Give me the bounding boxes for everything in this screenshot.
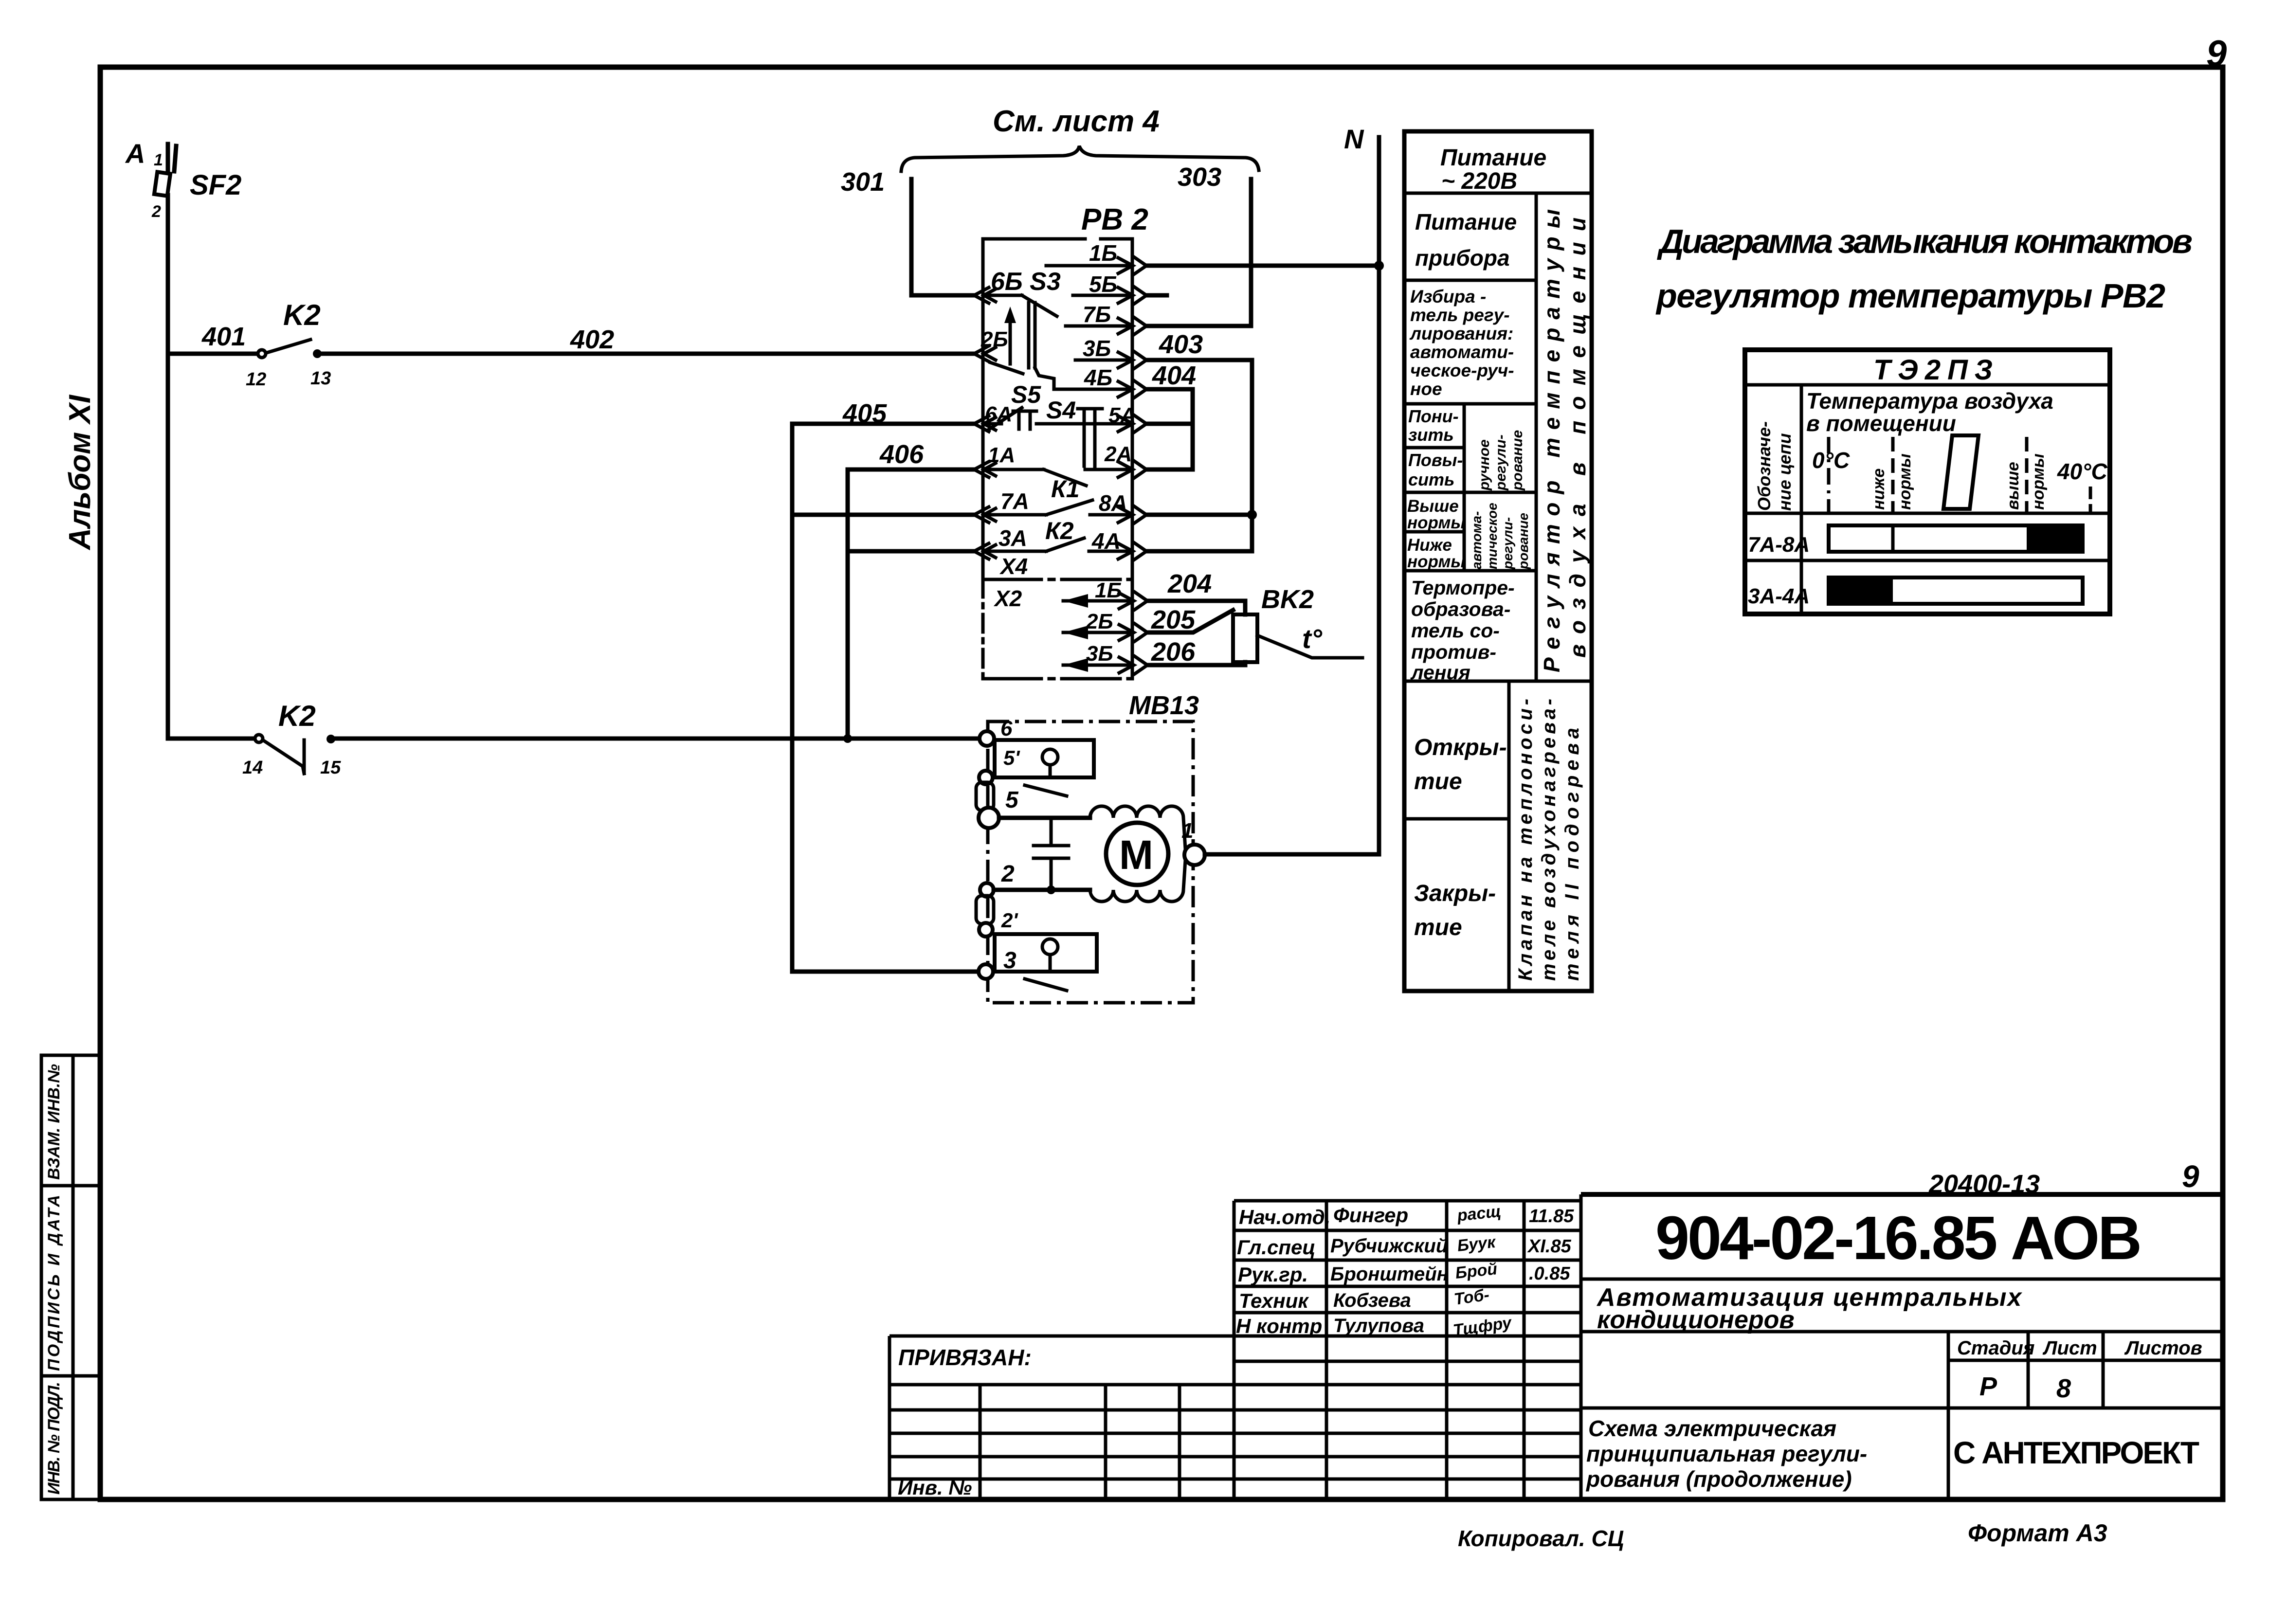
contact S3 second pole diagonal <box>990 362 1023 374</box>
svg-text:Температура воздуха: Температура воздуха <box>1806 388 2053 414</box>
main title block frame <box>1581 1194 2222 1499</box>
row 1Б <box>1046 240 1129 266</box>
svg-text:X4: X4 <box>999 554 1028 579</box>
terminal 2 <box>980 883 994 897</box>
svg-text:тие: тие <box>1414 769 1462 794</box>
jumper 5'-5 <box>976 782 994 811</box>
svg-text:2Б: 2Б <box>1086 610 1113 633</box>
wire 405 vertical chain (x1628): 405 row to 7A row to terminal 3 wire <box>790 424 795 972</box>
svg-text:выше: выше <box>2004 462 2022 510</box>
svg-text:Нач.отд.: Нач.отд. <box>1239 1206 1330 1228</box>
svg-text:Схема электрическая: Схема электрическая <box>1588 1416 1836 1441</box>
svg-text:1А: 1А <box>988 443 1015 467</box>
terminal 5' <box>979 771 993 784</box>
bracket См. лист 4 <box>901 105 1259 171</box>
wire 406 vertical chain (x1742): 406 row to 3A row to terminal 6 wire <box>846 469 850 739</box>
wire 5А row to 404 vertical <box>1146 422 1193 426</box>
limit switch box (3) <box>995 934 1097 972</box>
right output arrows <box>1118 257 1147 674</box>
contact K1 row 7А/8А <box>983 475 1129 516</box>
wire 405 <box>792 422 973 426</box>
svg-text:автома-: автома- <box>1469 511 1484 569</box>
cell Термопреобразователь сопротивления <box>1404 680 1592 683</box>
wire 406 <box>848 468 973 472</box>
svg-text:Формат А3: Формат А3 <box>1968 1519 2107 1547</box>
svg-text:14: 14 <box>242 758 263 778</box>
svg-text:A: A <box>125 138 145 169</box>
svg-text:7А-8А: 7А-8А <box>1748 533 1810 557</box>
svg-text:8А: 8А <box>1099 490 1127 516</box>
svg-text:ления: ления <box>1410 661 1470 684</box>
svg-text:Повы-: Повы- <box>1408 450 1463 470</box>
wire 7Б to 303 <box>1146 324 1251 328</box>
contact S3 <box>983 268 1061 368</box>
svg-text:0°С: 0°С <box>1812 448 1850 473</box>
svg-text:образова-: образова- <box>1411 598 1510 620</box>
setpoint parallelogram <box>1943 435 1978 509</box>
breaker SF2 <box>151 144 241 221</box>
svg-text:Инв. №: Инв. № <box>898 1476 972 1499</box>
svg-text:K2: K2 <box>283 299 321 331</box>
svg-text:7А: 7А <box>1000 488 1029 514</box>
contact K2 (14-15) <box>242 700 341 778</box>
svg-text:2: 2 <box>151 202 161 221</box>
svg-text:тие: тие <box>1414 915 1462 940</box>
svg-text:.0.85: .0.85 <box>1529 1263 1570 1284</box>
svg-text:3А: 3А <box>998 525 1027 551</box>
row divider <box>1745 512 2110 515</box>
staff signature table <box>1234 1201 1581 1499</box>
wire 402 <box>317 352 973 356</box>
svg-text:ПОДПИСЬ И ДАТА: ПОДПИСЬ И ДАТА <box>45 1195 63 1371</box>
contact S5 <box>983 381 1041 430</box>
svg-text:ние цепи: ние цепи <box>1775 433 1795 511</box>
MB13 dash-dot box <box>988 722 1193 1003</box>
svg-text:6: 6 <box>1000 717 1013 740</box>
terminal 5 <box>979 808 999 828</box>
svg-text:8: 8 <box>2056 1374 2071 1403</box>
svg-text:7Б: 7Б <box>1083 302 1111 327</box>
svg-text:3Б: 3Б <box>1086 642 1113 666</box>
rotated column divider <box>1535 193 1538 681</box>
svg-text:406: 406 <box>879 440 924 469</box>
X4 divider dash-dot <box>983 578 1132 581</box>
svg-text:С АНТЕХПРОЕКТ: С АНТЕХПРОЕКТ <box>1953 1435 2199 1470</box>
svg-text:сить: сить <box>1408 469 1454 489</box>
svg-text:рование: рование <box>1516 513 1531 570</box>
svg-text:5': 5' <box>1003 746 1020 769</box>
cell Открытие <box>1507 681 1511 991</box>
X2 row 2Б <box>1063 610 1129 639</box>
svg-text:против-: против- <box>1411 641 1496 663</box>
svg-text:Закры-: Закры- <box>1414 881 1496 906</box>
svg-text:XI.85: XI.85 <box>1527 1236 1572 1257</box>
wire 4А row <box>1146 515 1252 551</box>
left attribute column cells <box>41 1055 100 1499</box>
svg-text:2Б: 2Б <box>980 327 1008 351</box>
PB2 box right edge <box>1131 239 1134 679</box>
svg-text:в помещении: в помещении <box>1806 411 1956 436</box>
wire to contact K2 (14-15) <box>168 737 255 741</box>
svg-text:тель со-: тель со- <box>1411 619 1500 642</box>
svg-text:1Б: 1Б <box>1095 578 1122 602</box>
thermal sensor BK2 <box>1233 585 1362 662</box>
svg-text:12: 12 <box>246 369 266 390</box>
svg-text:303: 303 <box>1178 162 1221 192</box>
svg-text:~ 220В: ~ 220В <box>1441 168 1517 194</box>
svg-text:Кобзева: Кобзева <box>1333 1290 1411 1311</box>
svg-text:3: 3 <box>1003 948 1016 974</box>
wire 7A row <box>792 513 973 517</box>
svg-text:тель регу-: тель регу- <box>1410 305 1510 325</box>
svg-text:X2: X2 <box>993 586 1022 611</box>
wire 3A row <box>848 549 973 554</box>
svg-text:рование: рование <box>1509 430 1525 491</box>
svg-text:Рук.гр.: Рук.гр. <box>1238 1263 1308 1286</box>
cell Повысить <box>1404 491 1536 494</box>
row 1А/2А <box>983 442 1132 486</box>
svg-text:прибора: прибора <box>1415 245 1510 271</box>
wire to motor terminal 3 <box>792 970 979 974</box>
header cell Питание ~220В <box>1404 192 1592 195</box>
svg-text:Стадия: Стадия <box>1957 1337 2034 1359</box>
wire terminal 5 to windings <box>999 816 1090 820</box>
wire terminal 2 to winding <box>994 888 1090 892</box>
svg-text:2А: 2А <box>1104 442 1132 466</box>
svg-text:Питание: Питание <box>1415 209 1517 235</box>
svg-text:2: 2 <box>1001 861 1015 887</box>
svg-text:К2: К2 <box>1045 517 1074 544</box>
svg-text:Техник: Техник <box>1239 1289 1309 1312</box>
svg-text:9: 9 <box>2182 1159 2199 1194</box>
wire 8А row <box>1146 513 1252 517</box>
svg-text:автомати-: автомати- <box>1410 342 1514 362</box>
svg-text:регули-: регули- <box>1493 434 1509 491</box>
svg-text:2': 2' <box>1001 909 1018 932</box>
wire N vertical <box>1377 137 1381 854</box>
svg-text:S4: S4 <box>1046 397 1076 424</box>
svg-text:SF2: SF2 <box>190 169 241 201</box>
svg-text:K2: K2 <box>278 700 316 732</box>
contact K2 (12-13) <box>246 299 331 390</box>
jumper 2-2' <box>976 896 994 924</box>
PB2 box top edge <box>983 237 1085 241</box>
svg-text:регули-: регули- <box>1500 517 1515 570</box>
wire from K2-15 to motor terminal 6 <box>331 737 982 741</box>
lower-left attachment table ПРИВЯЗАН <box>889 1336 1234 1499</box>
svg-text:ное: ное <box>1410 379 1442 399</box>
svg-text:Термопре-: Термопре- <box>1411 577 1515 599</box>
contact S4 <box>1036 397 1136 466</box>
svg-text:ческое-руч-: ческое-руч- <box>1410 361 1514 380</box>
cell Понизить <box>1463 404 1466 571</box>
row 7Б <box>1066 302 1129 327</box>
svg-text:Откры-: Откры- <box>1414 735 1507 760</box>
svg-text:Фингер: Фингер <box>1333 1204 1408 1227</box>
cell Питание прибора <box>1404 279 1536 282</box>
X2 bottom dash-dot <box>983 677 1132 681</box>
svg-text:1Б: 1Б <box>1089 240 1117 266</box>
svg-text:ручное: ручное <box>1476 439 1492 491</box>
X2 row 1Б <box>1063 578 1129 608</box>
wire 1Б to N <box>1146 264 1379 268</box>
svg-text:Копировал. СЦ: Копировал. СЦ <box>1458 1526 1624 1551</box>
svg-text:К1: К1 <box>1051 475 1080 503</box>
svg-text:M: M <box>1119 832 1153 878</box>
svg-text:Диаграмма замыкания контактов: Диаграмма замыкания контактов <box>1657 222 2193 260</box>
svg-text:Н контр: Н контр <box>1236 1315 1322 1337</box>
terminal 3 <box>979 964 993 979</box>
svg-text:нормы: нормы <box>2029 453 2048 510</box>
svg-text:206: 206 <box>1151 637 1196 667</box>
limit switch box (5') <box>995 740 1094 777</box>
svg-text:Пони-: Пони- <box>1408 406 1459 426</box>
X2 row 3Б <box>1063 642 1129 672</box>
svg-text:Альбом XI: Альбом XI <box>63 394 97 551</box>
svg-text:904-02-16.85 АОВ: 904-02-16.85 АОВ <box>1655 1204 2142 1272</box>
svg-text:1: 1 <box>154 151 163 169</box>
header ТЭ2П3 <box>1745 383 2110 387</box>
svg-text:N: N <box>1344 124 1364 154</box>
svg-text:Обозначе-: Обозначе- <box>1754 421 1774 511</box>
svg-text:3Б: 3Б <box>1083 336 1111 361</box>
svg-text:ИНВ. № ПОДЛ.: ИНВ. № ПОДЛ. <box>45 1382 63 1495</box>
capacitor <box>1034 818 1069 890</box>
svg-text:15: 15 <box>320 758 341 778</box>
wire 2А row <box>1146 468 1193 472</box>
row divider <box>1745 559 2110 562</box>
svg-text:405: 405 <box>842 399 887 428</box>
svg-text:403: 403 <box>1159 330 1203 359</box>
svg-text:принципиальная регули-: принципиальная регули- <box>1586 1441 1867 1466</box>
svg-text:4Б: 4Б <box>1084 365 1112 390</box>
svg-text:3А-4А: 3А-4А <box>1748 584 1810 608</box>
svg-text:20400-13: 20400-13 <box>1928 1170 2040 1199</box>
svg-text:6Б S3: 6Б S3 <box>991 268 1061 296</box>
svg-text:205: 205 <box>1151 605 1196 634</box>
svg-text:ВЗАМ. ИНВ.№: ВЗАМ. ИНВ.№ <box>45 1064 63 1180</box>
svg-text:Листов: Листов <box>2124 1337 2202 1359</box>
svg-text:13: 13 <box>310 368 331 389</box>
svg-text:PB 2: PB 2 <box>1081 203 1148 236</box>
svg-text:1: 1 <box>1181 819 1193 843</box>
svg-text:301: 301 <box>841 167 885 197</box>
svg-text:тическое: тическое <box>1485 503 1500 569</box>
left input arrows <box>974 288 996 559</box>
svg-text:5Б: 5Б <box>1089 271 1117 297</box>
svg-text:теле воздухонагрева-: теле воздухонагрева- <box>1538 699 1560 981</box>
wire terminal 1 to N <box>1205 852 1379 857</box>
column divider <box>1800 385 1803 614</box>
svg-text:11.85: 11.85 <box>1529 1206 1574 1227</box>
regulator PB2 block <box>974 203 1148 679</box>
svg-text:Избира -: Избира - <box>1410 287 1486 307</box>
wire from SF2 down to node 401 <box>166 195 170 354</box>
svg-text:204: 204 <box>1167 569 1212 598</box>
contact K2 row 3А/4А <box>983 517 1129 554</box>
svg-text:401: 401 <box>201 322 246 351</box>
legend table (signal column) <box>1404 131 1592 991</box>
svg-text:S5: S5 <box>1011 381 1041 408</box>
svg-text:Лист: Лист <box>2042 1337 2097 1359</box>
PB2 box left edge <box>981 239 985 579</box>
terminal 1 <box>1184 845 1205 865</box>
svg-text:См. лист 4: См. лист 4 <box>993 105 1160 138</box>
cell Выше нормы <box>1404 530 1464 534</box>
svg-text:5: 5 <box>1005 787 1019 813</box>
wire 301 <box>841 167 973 295</box>
motor M with windings <box>1090 806 1185 902</box>
svg-text:Питание: Питание <box>1440 145 1546 171</box>
svg-text:зить: зить <box>1408 425 1454 445</box>
valve actuator MB13 <box>976 691 1379 1003</box>
svg-text:кондиционеров: кондиционеров <box>1597 1306 1795 1334</box>
svg-text:40°С: 40°С <box>2057 459 2108 484</box>
wire 205 to BK2 <box>1147 605 1233 634</box>
row 4Б with link from S3 <box>1035 365 1129 390</box>
svg-text:нормы: нормы <box>1407 513 1465 532</box>
svg-text:Бронштейн: Бронштейн <box>1330 1263 1449 1285</box>
wire 404 <box>1146 361 1196 469</box>
svg-text:Р: Р <box>1979 1372 1997 1401</box>
wire 206 to BK2 <box>1147 637 1245 667</box>
terminal 2' <box>979 923 993 937</box>
wire 403 <box>1146 330 1252 515</box>
svg-text:регулятор температуры РВ2: регулятор температуры РВ2 <box>1655 277 2165 315</box>
svg-text:ниже: ниже <box>1870 469 1888 510</box>
svg-text:BK2: BK2 <box>1261 585 1314 614</box>
svg-text:рования (продолжение): рования (продолжение) <box>1585 1466 1852 1492</box>
cell Избиратель регулирования <box>1404 402 1536 406</box>
title block <box>889 1159 2222 1499</box>
cell Ниже нормы <box>1404 569 1536 573</box>
svg-text:Тулупова: Тулупова <box>1333 1315 1424 1336</box>
row 5Б <box>1073 271 1129 297</box>
svg-text:лирования:: лирования: <box>1409 324 1513 343</box>
svg-text:ТЭ2ПЗ: ТЭ2ПЗ <box>1873 354 1999 386</box>
svg-text:нормы: нормы <box>1407 552 1465 571</box>
svg-text:9: 9 <box>2206 33 2227 74</box>
svg-text:404: 404 <box>1152 361 1196 390</box>
wire 5Б stub <box>1146 293 1167 298</box>
svg-text:Гл.спец: Гл.спец <box>1237 1236 1315 1259</box>
contact closing diagram table ТЭ2П3 <box>1745 350 2110 614</box>
svg-text:нормы: нормы <box>1896 453 1914 510</box>
svg-text:402: 402 <box>570 325 614 354</box>
terminal 6 <box>980 731 994 746</box>
wire 303 <box>1178 162 1251 326</box>
row 3Б <box>1075 336 1129 361</box>
svg-text:Рубчижский: Рубчижский <box>1330 1235 1448 1257</box>
svg-text:t°: t° <box>1302 623 1323 654</box>
svg-text:MB13: MB13 <box>1129 691 1199 720</box>
wire 401 <box>168 352 258 356</box>
svg-text:ПРИВЯЗАН:: ПРИВЯЗАН: <box>898 1345 1032 1370</box>
wire 204 to BK2 <box>1147 569 1245 614</box>
wire: left vertical down to lower K2 <box>166 354 170 739</box>
